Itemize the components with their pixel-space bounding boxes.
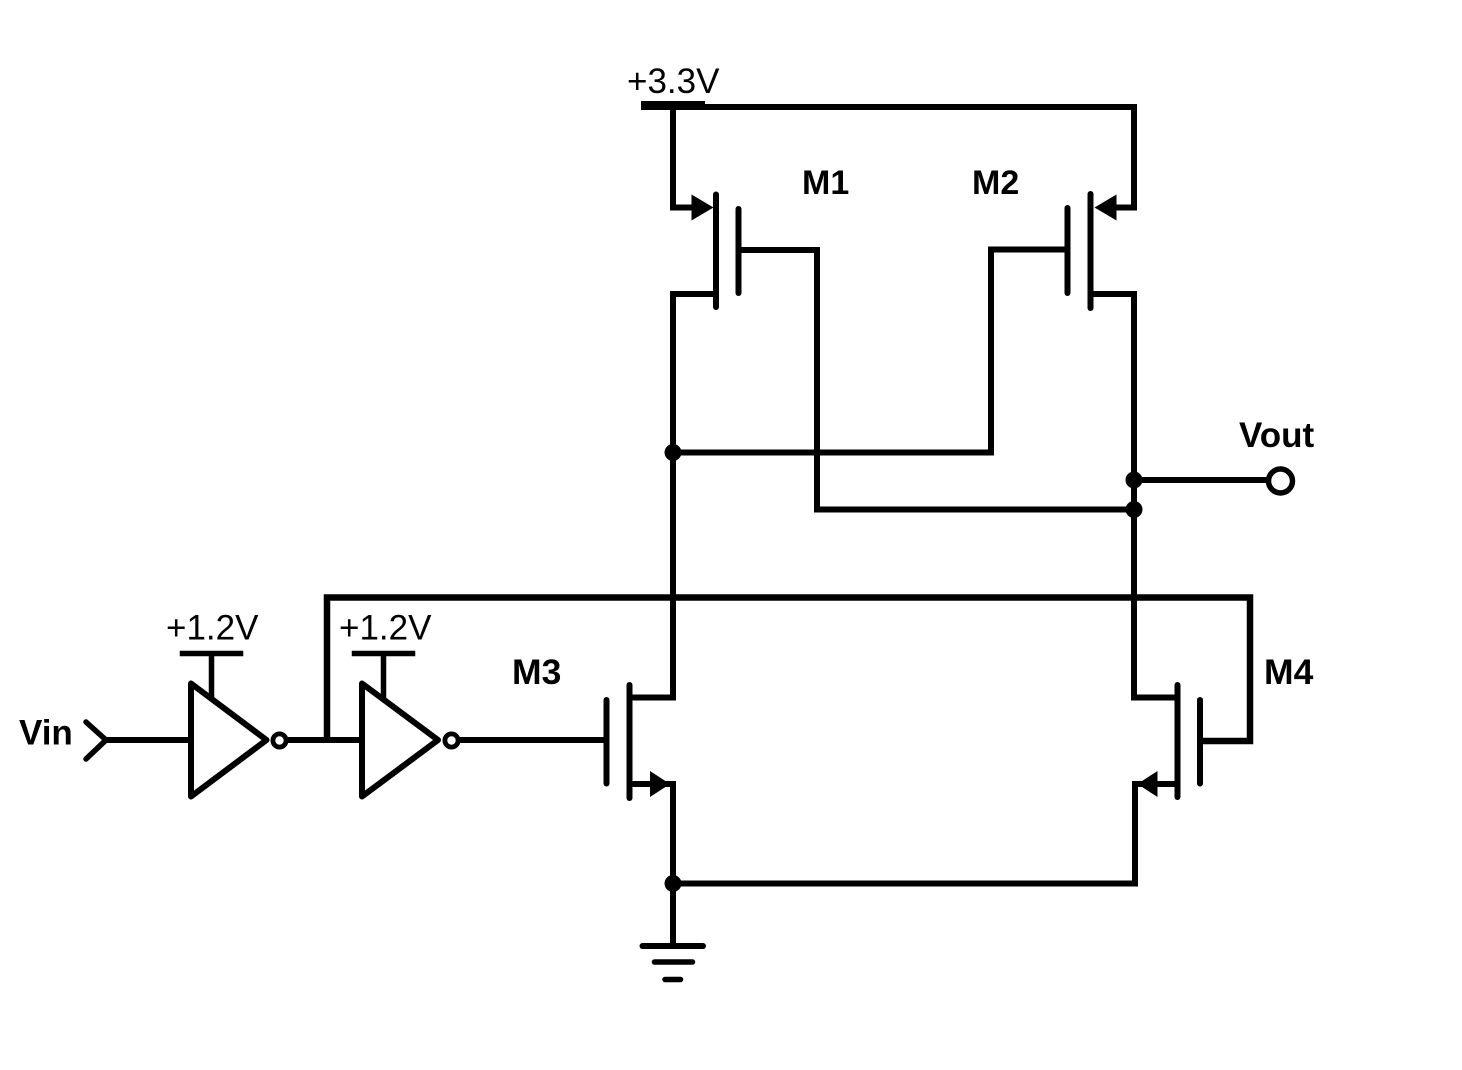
wire M2 gate cross-couple to M1 drain node <box>673 250 1068 453</box>
wire +3.3V supply rail and right drop to M2 source <box>641 107 1134 208</box>
transistor M1 PMOS gate bar <box>736 209 742 293</box>
transistor M4 NMOS channel bar <box>1175 685 1181 797</box>
transistor M1 PMOS channel bar <box>713 195 719 308</box>
inverter U1 output bubble <box>273 734 286 747</box>
svg-text:+1.2V: +1.2V <box>166 609 259 648</box>
wire Vout lead <box>1134 477 1268 483</box>
wire M3 source / bottom rail / M4 source <box>630 784 1178 884</box>
inverter U2 output bubble <box>445 734 458 747</box>
input terminal chevron Vin <box>86 722 106 759</box>
transistor M2 PMOS gate bar <box>1065 208 1071 293</box>
transistor M3 NMOS gate bar <box>604 700 610 784</box>
junction node at M2 drain / M1 gate <box>1126 501 1143 518</box>
svg-text:M2: M2 <box>972 164 1019 202</box>
svg-text:M3: M3 <box>512 652 561 692</box>
wire left rail drop to M1 source <box>673 107 694 208</box>
transistor M2 PMOS channel bar <box>1088 194 1094 308</box>
transistor M3 NMOS channel bar <box>627 685 633 798</box>
wire M2 drain to right vertical down to M4 drain <box>1091 294 1178 698</box>
transistor M4 NMOS gate bar <box>1197 700 1203 784</box>
transistor M1 source arrow <box>692 195 714 221</box>
inverter U2 triangle <box>362 684 438 797</box>
Vout open terminal circle <box>1269 469 1293 493</box>
svg-text:M1: M1 <box>802 164 849 202</box>
inverter U1 +1.2V supply bar <box>180 654 244 700</box>
svg-text:+1.2V: +1.2V <box>339 609 432 648</box>
wire inverter2 output to M3 gate <box>460 737 605 743</box>
inverter U2 +1.2V supply bar <box>352 654 416 701</box>
wire feedback from inverter node to M4 gate <box>327 598 1250 742</box>
wire ground drop <box>670 884 676 946</box>
wire Vin input lead <box>106 737 190 743</box>
svg-text:Vin: Vin <box>19 714 73 753</box>
svg-text:Vout: Vout <box>1239 416 1315 455</box>
wire M1 drain to left vertical down to M3 drain <box>630 294 717 698</box>
transistor M3 source arrow <box>650 771 670 797</box>
transistor M2 source arrow <box>1095 195 1117 221</box>
junction node at M2 drain / Vout <box>1126 472 1143 489</box>
transistor M4 source arrow <box>1138 771 1158 797</box>
junction node at M3 source / ground <box>665 875 682 892</box>
junction node at M1 drain / M2 gate <box>665 444 682 461</box>
wire inverter1 output to inverter2 input <box>288 737 360 743</box>
svg-text:M4: M4 <box>1264 652 1314 692</box>
wire M1 gate cross-couple to M2 drain node <box>739 250 1135 510</box>
svg-text:+3.3V: +3.3V <box>627 62 720 101</box>
inverter U1 triangle <box>191 684 267 797</box>
+3.3V supply terminal bar <box>641 101 705 107</box>
ground symbol <box>643 946 704 980</box>
